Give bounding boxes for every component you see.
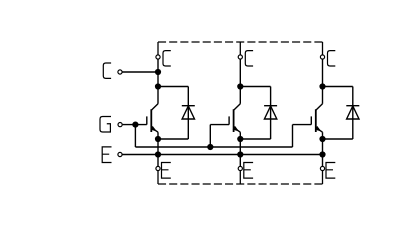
wire D1 branch vertical — [187, 87, 189, 140]
terminal E pin cell 1 — [156, 166, 160, 170]
label C (cell 1) — [163, 51, 171, 66]
node collector-diode junction 3 — [319, 83, 325, 89]
wire package stub above C pin 3 — [322, 42, 324, 55]
wire gate lead Q2 — [210, 124, 229, 126]
wire gate lead Q3 — [293, 124, 312, 126]
wire gate bus horizontal — [135, 146, 292, 148]
wire package stub above C pin 2 — [239, 42, 241, 55]
node gate bus junction Q2 — [207, 144, 213, 150]
label G (left terminal) — [100, 117, 111, 133]
terminal E pin cell 3 — [320, 166, 324, 170]
wire emitter to E bus 3 — [322, 139, 324, 155]
wire E bus — [122, 154, 322, 156]
wire G terminal to Q1 gate — [123, 124, 147, 126]
wire gate riser Q2 — [209, 125, 211, 147]
terminal C pin cell 1 — [156, 55, 160, 59]
wire collector vertical Q3 — [322, 59, 324, 104]
terminal E (left) — [118, 152, 122, 156]
wire package stub below E pin 3 — [322, 171, 324, 184]
wire collector to D1 cathode — [158, 86, 188, 88]
node collector-diode junction 1 — [155, 83, 161, 89]
node E bus junction 1 — [155, 151, 161, 157]
wire package stub below E pin 2 — [239, 171, 241, 184]
node collector-diode junction 2 — [237, 83, 243, 89]
terminal C pin cell 3 — [320, 55, 324, 59]
wire D3 anode to emitter node — [323, 138, 353, 140]
wire collector vertical Q2 — [239, 59, 241, 104]
label E (cell 1) — [162, 163, 171, 179]
label E (cell 2) — [244, 163, 253, 179]
wire collector to D3 cathode — [323, 86, 353, 88]
diode D2 — [264, 106, 277, 119]
wire E bus to E pin 2 — [239, 155, 241, 167]
diode D3 — [346, 106, 359, 119]
wire D3 branch vertical — [352, 87, 354, 140]
wire gate bus down from node G1 — [134, 125, 136, 147]
node G terminal junction — [132, 122, 138, 128]
wire emitter to E bus 2 — [239, 139, 241, 155]
wire emitter to E bus 1 — [157, 139, 159, 155]
node E bus junction 2 — [237, 151, 243, 157]
terminal C (left) — [118, 70, 122, 74]
wire D1 anode to emitter node — [158, 138, 188, 140]
node emitter-diode junction 1 — [155, 136, 161, 142]
wire package stub below E pin 1 — [157, 171, 159, 184]
label C (left terminal) — [103, 63, 111, 78]
wire emitter vertical Q1 — [157, 132, 159, 139]
wire collector vertical Q1 — [157, 59, 159, 104]
node emitter-diode junction 2 — [237, 136, 243, 142]
terminal C pin cell 2 — [238, 55, 242, 59]
wire package stub above C pin 1 — [157, 42, 159, 55]
diode D1 — [182, 106, 195, 119]
wire emitter vertical Q3 — [322, 132, 324, 139]
module outline dashed box bottom edge — [158, 183, 323, 185]
label C (cell 3) — [328, 51, 336, 66]
wire E bus to E pin 3 — [322, 155, 324, 167]
terminal E pin cell 2 — [238, 166, 242, 170]
wire D2 anode to emitter node — [240, 138, 270, 140]
transistor Q2 (IGBT) — [229, 104, 240, 132]
module outline dashed box top edge — [158, 41, 323, 43]
wire D2 branch vertical — [270, 87, 272, 140]
node E bus junction 3 — [319, 151, 325, 157]
wire collector to D2 cathode — [240, 86, 270, 88]
node emitter-diode junction 3 — [319, 136, 325, 142]
label E (left terminal) — [102, 147, 111, 163]
transistor Q3 (IGBT) — [311, 104, 322, 132]
wire E bus to E pin 1 — [157, 155, 159, 167]
node C terminal junction — [155, 69, 161, 75]
label E (cell 3) — [326, 163, 335, 179]
wire C terminal to collector node — [122, 71, 158, 73]
wire emitter vertical Q2 — [239, 132, 241, 139]
wire gate riser Q3 — [292, 125, 294, 147]
transistor Q1 (IGBT) — [147, 104, 158, 132]
terminal G (left) — [118, 123, 122, 127]
label C (cell 2) — [245, 51, 253, 66]
